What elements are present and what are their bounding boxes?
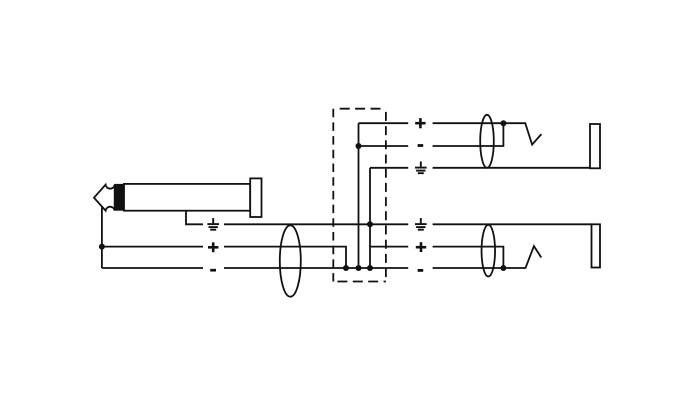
node: J2 tip junction [500,265,506,271]
wire: top + branch [359,122,409,124]
wire: bottom ground to J2 sleeve [433,223,592,225]
wire: + left into splitter, corner down [224,247,346,268]
cable shield C2 [480,115,494,168]
ground symbol GND2 [415,162,427,174]
- label bottom right [418,269,424,272]
wire: bottom - to jack J2 tip [433,246,542,268]
wire: + left segment [102,246,203,248]
wire: bottom + corner down to - node [433,247,504,268]
wire: top - branch [359,145,409,147]
wire: bottom + branch from vertical [370,246,408,248]
+ label top right [415,118,425,128]
- label left [210,269,216,272]
node: bus junction B [356,265,362,271]
wire: - bus through splitter [224,267,408,269]
ground symbol GND1 [207,218,219,230]
wire: sleeve drop from plug body [186,211,203,225]
wire: top + to jack J1 tip [433,123,542,144]
wire: tip to + and - taps [101,207,103,268]
node: J1 tip junction [500,120,506,126]
node: top - tap [356,143,362,149]
wire: - left segment [102,267,203,269]
jack J1 sleeve contact [590,124,600,168]
jack plug P1 insulator ring [114,184,124,211]
node: tip to + wire [99,244,105,250]
+ label bottom right [416,242,426,252]
jack J2 sleeve contact [592,224,601,267]
node: bus junction C [367,265,373,271]
jack plug P1 tip [94,185,115,211]
jack plug P1 body [124,184,250,211]
+ label left [208,242,218,252]
cable shield C3 [482,225,496,277]
wire: ground bus left-to-right through splitter [224,223,408,225]
wire: top ground branch [370,167,408,169]
node: bus junction A [343,265,349,271]
cable shield C1 [280,225,301,296]
jack plug P1 housing cap [250,178,261,217]
splitter junction box (dashed) [333,109,386,282]
wire: right vertical ground/return [369,168,371,268]
wire: top ground to J1 sleeve [433,167,590,169]
wire: top - corner up to + node [433,123,504,146]
wire: main vertical tip feed [358,123,360,268]
ground symbol GND3 [415,218,427,230]
- label top right [418,144,424,147]
node: ground cross left [367,221,373,227]
